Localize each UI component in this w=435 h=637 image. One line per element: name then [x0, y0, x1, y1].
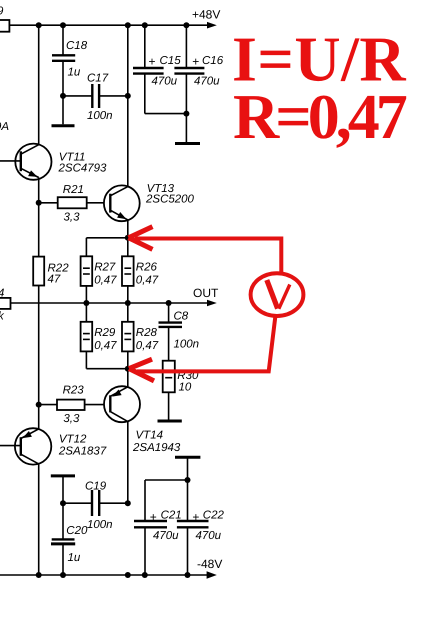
- svg-text:C16: C16: [202, 55, 224, 67]
- svg-text:1u: 1u: [68, 67, 81, 79]
- capacitor C19: [63, 490, 128, 516]
- ground (C15/C16): [175, 114, 200, 144]
- svg-text:470u: 470u: [194, 76, 220, 88]
- transistor VT11: [0, 144, 52, 180]
- svg-text:+: +: [150, 510, 157, 524]
- transistor VT12: [0, 405, 51, 575]
- transistor VT14: [104, 369, 140, 504]
- svg-text:R27: R27: [94, 261, 116, 273]
- capacitor C15: [133, 25, 186, 113]
- svg-text:OUT: OUT: [193, 286, 219, 300]
- wire node to R27 top: [86, 238, 127, 256]
- svg-text:C17: C17: [87, 73, 109, 85]
- svg-text:2SC5200: 2SC5200: [145, 193, 195, 205]
- svg-text:100n: 100n: [87, 110, 113, 122]
- ground (C18 node): [52, 96, 75, 126]
- svg-text:+: +: [149, 55, 156, 69]
- wire VT13 collector rail: [127, 25, 129, 186]
- svg-text:+48V: +48V: [192, 8, 220, 22]
- OUT arrow: [207, 300, 217, 307]
- node C17 right junction: [125, 93, 131, 99]
- wire +48V top rail: [9, 24, 211, 26]
- resistor R28: [122, 303, 134, 369]
- svg-text:47: 47: [48, 274, 61, 286]
- svg-text:R21: R21: [63, 184, 84, 196]
- capacitor C22: [177, 480, 209, 575]
- node R23/VT12 junction: [36, 402, 42, 408]
- svg-text:1u: 1u: [68, 552, 81, 564]
- resistor R29: [81, 303, 128, 369]
- svg-text:+: +: [192, 510, 199, 524]
- ground (C19/C20 node, mirrored): [51, 476, 75, 503]
- svg-text:0,47: 0,47: [136, 340, 159, 352]
- svg-text:R23: R23: [63, 384, 85, 396]
- node OUT rail junctions: [83, 300, 171, 306]
- resistor R22: [33, 203, 44, 405]
- svg-text:VT14: VT14: [136, 430, 164, 442]
- svg-text:3,3: 3,3: [63, 413, 80, 425]
- svg-text:9A: 9A: [0, 121, 9, 133]
- svg-text:C18: C18: [66, 40, 88, 52]
- svg-text:C20: C20: [66, 525, 88, 537]
- resistor R30: [163, 361, 175, 420]
- node C19 right junction: [125, 500, 131, 506]
- node VT11 emitter junction: [36, 200, 42, 206]
- capacitor C17: [63, 84, 128, 108]
- svg-text:-48V: -48V: [197, 557, 222, 571]
- wire red probe top: [129, 227, 282, 274]
- svg-text:R26: R26: [136, 261, 158, 273]
- wire VT11 emitter to node: [38, 178, 40, 203]
- wire VT13 emitter to node: [127, 220, 129, 238]
- svg-text:3,3: 3,3: [64, 211, 81, 223]
- node top rail junctions: [36, 22, 190, 28]
- svg-text:VT12: VT12: [59, 434, 87, 446]
- resistor R21: [39, 197, 111, 208]
- svg-text:470u: 470u: [153, 530, 179, 542]
- svg-text:9: 9: [0, 6, 4, 18]
- svg-text:2SA1837: 2SA1837: [58, 446, 107, 458]
- svg-text:0,47: 0,47: [94, 340, 117, 352]
- svg-text:C19: C19: [85, 480, 107, 492]
- capacitor C20: [51, 503, 75, 575]
- node C15/C16 junction: [183, 111, 189, 117]
- +48V arrow: [207, 22, 217, 29]
- wire node to R26 top: [127, 238, 129, 256]
- resistor R23: [39, 400, 111, 410]
- wire red probe bottom: [129, 316, 275, 381]
- svg-text:10: 10: [179, 381, 192, 393]
- svg-text:0,47: 0,47: [136, 274, 159, 286]
- svg-text:R=0,47: R=0,47: [233, 81, 407, 152]
- capacitor C18: [52, 25, 75, 96]
- svg-text:C8: C8: [174, 310, 189, 322]
- resistor R27: [81, 256, 93, 303]
- node top emitter junction: [125, 235, 131, 241]
- capacitor C16: [174, 25, 204, 113]
- svg-text:+: +: [192, 55, 199, 69]
- resistor R24 stub (left, clipped): [0, 298, 11, 309]
- node C19/C20 junction: [60, 500, 66, 506]
- node bottom emitter junction: [125, 366, 131, 372]
- wire VT11 collector rail: [38, 25, 40, 145]
- svg-text:C15: C15: [160, 55, 182, 67]
- svg-text:100n: 100n: [174, 339, 200, 351]
- svg-text:0,47: 0,47: [94, 274, 117, 286]
- ground (R30): [158, 420, 182, 423]
- resistor R19 stub (top-left, clipped): [0, 20, 9, 32]
- svg-text:100n: 100n: [87, 519, 113, 531]
- svg-text:2SC4793: 2SC4793: [58, 162, 108, 174]
- svg-text:4: 4: [0, 287, 4, 299]
- svg-text:470u: 470u: [152, 76, 178, 88]
- node C18/C17 junction: [60, 93, 66, 99]
- capacitor C8: [159, 303, 183, 361]
- svg-text:470u: 470u: [196, 530, 222, 542]
- -48V arrow: [207, 571, 217, 578]
- capacitor C21: [134, 480, 188, 575]
- transistor VT13: [104, 185, 140, 221]
- node bottom rail junctions: [36, 572, 191, 578]
- resistor R26: [122, 256, 134, 303]
- wire OUT rail: [11, 302, 212, 304]
- voltmeter V (red): [251, 273, 304, 316]
- svg-text:R28: R28: [136, 327, 158, 339]
- svg-text:R29: R29: [94, 327, 116, 339]
- ground (C21/C22 node, mirrored): [175, 457, 200, 480]
- svg-text:C22: C22: [203, 510, 225, 522]
- wire -48V bottom rail: [0, 574, 212, 576]
- node C21/C22 junction: [185, 477, 191, 483]
- svg-text:2SA1943: 2SA1943: [132, 442, 181, 454]
